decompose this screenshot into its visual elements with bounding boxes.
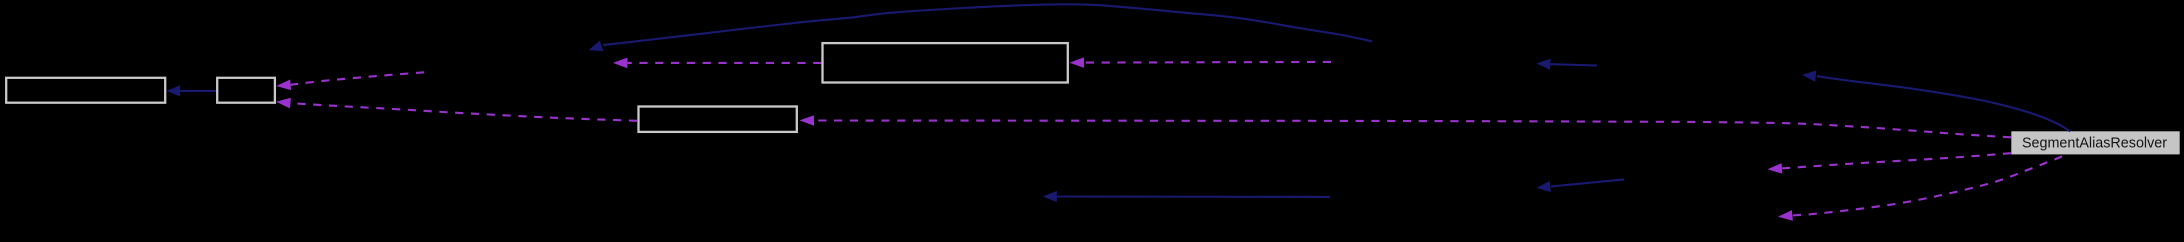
edge: dashed usage curve from SegmentAliasResolver bottom (line) [1792,157,2062,216]
arrowhead of long bottom arrow [1043,191,1057,202]
arrowhead at N4 right edge [800,115,815,126]
edge: long dashed usage arrow SegmentAliasResolver->N4 (line) [814,121,2011,138]
edge: dashed usage arrow from SegmentAliasResolver lower-left (line) [1782,153,2011,168]
node: empty class box N1 (far left) [6,78,165,103]
arrowhead of big top arc (left tip) [589,41,604,52]
arrowhead left of N3 [613,58,628,69]
node: empty class box N4 (middle) [639,107,797,132]
svg-text:SegmentAliasResolver: SegmentAliasResolver [2022,135,2167,151]
edge: dashed usage arrow from N3 left edge (line) [627,62,821,64]
arrowhead at N2 right edge lower [276,98,291,109]
arrowhead of bottom dashed curve [1778,210,1793,221]
node: empty class box N3 (top middle, tall) [823,43,1068,82]
edge: short solid arrow upper middle (line) [1550,64,1597,65]
edge: solid inheritance arrow N2->N1 (line) [180,90,216,92]
edge: long solid bottom arrow (line) [1057,195,1330,197]
arrowhead lower-left of SegmentAliasResolver [1768,163,1783,174]
arrowhead of inheritance curve [1802,71,1816,82]
arrowhead of short bottom-right arrow [1537,181,1551,192]
edge: dashed usage arrow N4->N2 lower (line) [290,103,637,121]
arrowhead of short upper arrow [1537,59,1551,70]
edge: dashed usage arrow into N3 right edge (line) [1084,61,1331,64]
edge: solid inheritance curve from SegmentAliasResolver top (line) [1817,76,2070,131]
edge: solid inheritance big top arc (line) [603,4,1372,45]
arrowhead at N2 right edge upper [276,80,291,91]
edge: dashed usage arrow into N2 upper (line) [291,72,424,85]
node: SegmentAliasResolver (main node, filled) [2011,131,2179,154]
edge: short solid arrow bottom right (line) [1551,179,1624,186]
node: empty class box N2 [217,78,275,103]
arrowhead at N3 right edge [1070,57,1085,68]
arrowhead at N1 right edge [166,85,180,96]
